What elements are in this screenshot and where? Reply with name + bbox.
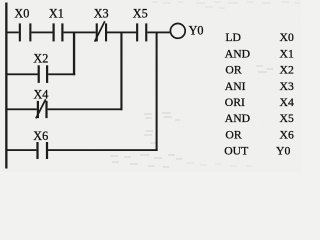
svg-text:Y0: Y0: [189, 23, 204, 37]
paper background: [0, 0, 301, 172]
svg-text:X3: X3: [94, 7, 109, 21]
contact X5 (NO): [136, 23, 147, 41]
svg-text:X6: X6: [33, 129, 48, 143]
wire: X6 branch horizontal (y=149.2): [7, 149, 158, 151]
svg-text:X2: X2: [280, 64, 294, 77]
svg-text:X2: X2: [33, 51, 48, 65]
contact X1 (NO): [53, 23, 64, 41]
svg-text:X6: X6: [280, 128, 294, 141]
contact X3 (NC): [96, 23, 107, 41]
svg-text:OUT: OUT: [224, 145, 248, 158]
slash of X4: [36, 99, 46, 118]
instruction list row 5: ORI X4: [225, 96, 294, 109]
wire: X4 branch horizontal (y=108.4): [7, 108, 123, 110]
contact X0 (NO): [19, 23, 32, 41]
svg-text:X0: X0: [280, 31, 294, 44]
svg-text:LD: LD: [225, 31, 241, 44]
coil Y0: [170, 24, 185, 39]
contact X4 (NC): [37, 101, 48, 118]
instruction list row 4: ANI X3: [225, 80, 294, 93]
instruction list row 3: OR X2: [225, 64, 294, 77]
left power rail: [5, 3, 7, 169]
instruction list row 2: AND X1: [225, 47, 294, 60]
faint scan bleed-through marks: [110, 2, 300, 167]
wire: X2 branch vertical (junction after X1): [73, 32, 75, 76]
svg-text:AND: AND: [225, 112, 250, 125]
contact X2 (NO): [38, 65, 49, 83]
slash of X3: [95, 21, 105, 41]
instruction list row 7: OR X6: [225, 128, 294, 141]
svg-text:OR: OR: [225, 128, 241, 141]
svg-text:X5: X5: [280, 112, 294, 125]
svg-text:ORI: ORI: [225, 96, 245, 109]
wire: main rung segments (y=31.5): [7, 32, 170, 34]
svg-text:AND: AND: [225, 47, 250, 60]
svg-text:Y0: Y0: [276, 145, 290, 158]
svg-text:X4: X4: [280, 96, 294, 109]
svg-text:X3: X3: [280, 80, 294, 93]
instruction list row 8: OUT Y0: [224, 145, 290, 158]
svg-text:X1: X1: [280, 47, 294, 60]
svg-text:X4: X4: [34, 88, 49, 102]
svg-text:X0: X0: [14, 7, 29, 21]
contact X6 (NO): [36, 142, 48, 159]
svg-text:X1: X1: [49, 7, 64, 21]
wire: X2 branch horizontal (y=73.4): [7, 73, 75, 75]
wire: X6 branch vertical (junction after X5): [156, 32, 158, 152]
svg-text:X5: X5: [133, 7, 148, 21]
instruction list row 6: AND X5: [225, 112, 294, 125]
instruction list row 1: LD X0: [225, 31, 294, 44]
svg-text:ANI: ANI: [225, 80, 246, 93]
wire: X4 branch vertical (junction after X3): [120, 32, 122, 111]
svg-text:OR: OR: [225, 64, 241, 77]
